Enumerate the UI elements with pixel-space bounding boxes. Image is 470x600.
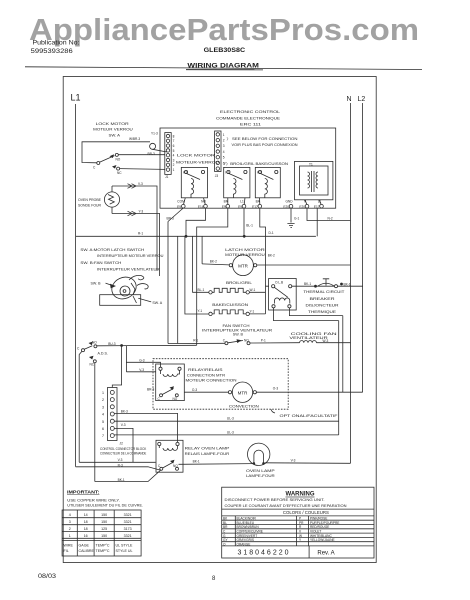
svg-text:V-3: V-3 bbox=[291, 459, 296, 463]
svg-text:E20: E20 bbox=[299, 205, 305, 209]
svg-text:VOIR PLUS BAS POUR CONNEXION: VOIR PLUS BAS POUR CONNEXION bbox=[232, 143, 298, 147]
svg-text:GLEB30S8C: GLEB30S8C bbox=[204, 48, 246, 54]
svg-text:Y-1: Y-1 bbox=[198, 309, 203, 313]
svg-text:G-1: G-1 bbox=[294, 217, 300, 221]
svg-text:3: 3 bbox=[223, 144, 225, 148]
svg-text:RELAIS LAMPE-FOUR: RELAIS LAMPE-FOUR bbox=[185, 452, 230, 456]
svg-text:3321: 3321 bbox=[124, 513, 132, 517]
svg-text:3: 3 bbox=[69, 520, 71, 524]
svg-text:7〉BROIL/GRIL BAKE/CUISSON: 7〉BROIL/GRIL BAKE/CUISSON bbox=[224, 161, 289, 166]
svg-text:2: 2 bbox=[223, 139, 225, 143]
svg-text:LAMPE-FOUR: LAMPE-FOUR bbox=[246, 474, 275, 478]
svg-text:DISCONNECT POWER BEFORE SERVIC: DISCONNECT POWER BEFORE SERVICING UNIT. bbox=[225, 498, 325, 502]
svg-text:COLORS / COULEURS: COLORS / COULEURS bbox=[283, 510, 329, 515]
svg-text:16: 16 bbox=[84, 534, 88, 538]
svg-text:STYLE UL: STYLE UL bbox=[116, 549, 133, 553]
svg-text:BK-1: BK-1 bbox=[304, 282, 311, 286]
svg-text:W/BR-3: W/BR-3 bbox=[129, 137, 140, 141]
svg-text:D-1: D-1 bbox=[269, 231, 274, 235]
svg-text:1: 1 bbox=[69, 534, 71, 538]
svg-text:MOTEUR VERROU: MOTEUR VERROU bbox=[93, 128, 133, 132]
svg-text:14: 14 bbox=[84, 513, 88, 517]
svg-text:3: 3 bbox=[173, 158, 175, 162]
svg-text:L1: L1 bbox=[240, 199, 244, 203]
svg-text:MTR: MTR bbox=[238, 390, 248, 395]
svg-text:UL-3: UL-3 bbox=[227, 416, 234, 420]
svg-text:4: 4 bbox=[223, 150, 225, 154]
svg-text:BR: BR bbox=[224, 199, 229, 203]
svg-text:N: N bbox=[347, 96, 352, 103]
svg-text:CONVECTION: CONVECTION bbox=[229, 405, 259, 409]
svg-text:6: 6 bbox=[102, 427, 104, 431]
svg-text:3: 3 bbox=[102, 405, 104, 409]
svg-text:Rev. A: Rev. A bbox=[317, 550, 334, 556]
svg-text:BL-1: BL-1 bbox=[246, 224, 253, 228]
svg-text:UTILISER SEULEMENT DU FIL DE C: UTILISER SEULEMENT DU FIL DE CUIVRE. bbox=[67, 504, 143, 508]
svg-text:CONTROL CONNECTOR BLOCK: CONTROL CONNECTOR BLOCK bbox=[100, 447, 147, 451]
svg-text:O-3: O-3 bbox=[192, 388, 198, 392]
svg-text:COM: COM bbox=[177, 199, 185, 203]
svg-text:BK-2: BK-2 bbox=[268, 253, 275, 257]
svg-text:SW. B: SW. B bbox=[233, 333, 244, 337]
svg-text:7: 7 bbox=[173, 139, 175, 143]
svg-text:4: 4 bbox=[69, 513, 71, 517]
svg-text:IMPORTANT:: IMPORTANT: bbox=[67, 490, 100, 495]
svg-text:5: 5 bbox=[173, 149, 175, 153]
svg-text:R-3: R-3 bbox=[118, 464, 123, 468]
svg-text:OVEN PROBE: OVEN PROBE bbox=[78, 198, 102, 202]
svg-text:FIL: FIL bbox=[64, 549, 69, 553]
svg-text:5: 5 bbox=[102, 420, 104, 424]
svg-text:MTR: MTR bbox=[238, 263, 248, 268]
svg-text:E20: E20 bbox=[283, 205, 289, 209]
svg-text:NO: NO bbox=[116, 158, 121, 162]
svg-text:2: 2 bbox=[173, 163, 175, 167]
svg-text:V-3: V-3 bbox=[139, 368, 144, 372]
svg-text:LOCK MOTOR: LOCK MOTOR bbox=[177, 154, 216, 158]
svg-text:J3: J3 bbox=[215, 174, 219, 178]
svg-text:GND: GND bbox=[285, 199, 293, 203]
svg-text:R-1: R-1 bbox=[193, 339, 198, 343]
svg-text:SW. B:FAN SWITCH: SW. B:FAN SWITCH bbox=[80, 261, 121, 265]
svg-text:COMMANDE ELECTRONIQUE: COMMANDE ELECTRONIQUE bbox=[216, 115, 280, 120]
svg-text:NO: NO bbox=[244, 339, 249, 343]
svg-text:1: 1 bbox=[102, 391, 104, 395]
svg-text:4: 4 bbox=[173, 154, 175, 158]
svg-text:THERMAL CIRCUIT: THERMAL CIRCUIT bbox=[303, 290, 345, 294]
svg-text:4: 4 bbox=[102, 413, 104, 417]
svg-text:V-3: V-3 bbox=[118, 458, 123, 462]
svg-text:1: 1 bbox=[223, 133, 225, 137]
svg-text:THERMIQUE: THERMIQUE bbox=[308, 310, 337, 314]
svg-text:8: 8 bbox=[173, 134, 175, 138]
svg-text:C: C bbox=[93, 166, 96, 170]
svg-text:125: 125 bbox=[101, 527, 107, 531]
svg-text:V-3: V-3 bbox=[138, 182, 143, 186]
svg-text:WIRING DIAGRAM: WIRING DIAGRAM bbox=[187, 64, 259, 70]
svg-text:NO: NO bbox=[92, 340, 97, 344]
svg-text:OVEN LAMP: OVEN LAMP bbox=[246, 469, 276, 473]
svg-text:E17: E17 bbox=[314, 205, 320, 209]
svg-text:J1: J1 bbox=[165, 175, 169, 179]
svg-text:SW. B: SW. B bbox=[91, 282, 102, 286]
svg-text:BREAKER: BREAKER bbox=[310, 297, 336, 301]
svg-text:L1: L1 bbox=[318, 199, 322, 203]
svg-text:W-3: W-3 bbox=[323, 339, 329, 343]
svg-text:WIRE: WIRE bbox=[64, 544, 74, 548]
svg-text:R-1: R-1 bbox=[138, 232, 143, 236]
svg-text:T1: T1 bbox=[309, 163, 313, 167]
svg-text:Y-1: Y-1 bbox=[250, 309, 255, 313]
svg-text:BK-1: BK-1 bbox=[344, 282, 351, 286]
svg-text:BK-3: BK-3 bbox=[121, 410, 128, 414]
svg-text:〉 SEE BELOW FOR CONNECTION: 〉 SEE BELOW FOR CONNECTION bbox=[227, 136, 298, 141]
svg-text:COUPER LE COURANT AVANT D'EFFE: COUPER LE COURANT AVANT D'EFFECTUER UNE … bbox=[225, 504, 347, 508]
svg-text:L2: L2 bbox=[358, 96, 366, 103]
svg-text:MOTEUR-VERROU: MOTEUR-VERROU bbox=[176, 161, 220, 165]
svg-text:3173: 3173 bbox=[124, 527, 132, 531]
svg-text:LOCK MOTOR: LOCK MOTOR bbox=[96, 122, 130, 126]
svg-text:BAKE/CUISSON: BAKE/CUISSON bbox=[212, 303, 248, 307]
svg-text:RELAY OVEN LAMP: RELAY OVEN LAMP bbox=[185, 447, 231, 451]
svg-text:8: 8 bbox=[212, 576, 216, 582]
svg-text:INTERRUPTEUR VENTILATEUR: INTERRUPTEUR VENTILATEUR bbox=[97, 268, 160, 272]
svg-text:AppliancePartsPros.com: AppliancePartsPros.com bbox=[29, 12, 419, 47]
svg-text:UL-3: UL-3 bbox=[227, 431, 234, 435]
svg-text:BR-3: BR-3 bbox=[148, 152, 155, 156]
svg-text:A.D.S.: A.D.S. bbox=[98, 352, 108, 356]
svg-text:18: 18 bbox=[84, 520, 88, 524]
svg-text:LATCH MOTOR: LATCH MOTOR bbox=[225, 248, 265, 252]
svg-text:OPT ONAL/FACULTATIF: OPT ONAL/FACULTATIF bbox=[280, 414, 339, 418]
svg-text:E17: E17 bbox=[252, 205, 258, 209]
svg-text:C: C bbox=[77, 347, 80, 351]
svg-text:318046220: 318046220 bbox=[237, 550, 290, 557]
svg-text:NO: NO bbox=[173, 464, 178, 468]
svg-text:NC: NC bbox=[90, 362, 95, 366]
svg-text:CONNECTEUR DE LA COMMANDE: CONNECTEUR DE LA COMMANDE bbox=[100, 452, 146, 456]
svg-text:NO: NO bbox=[173, 397, 178, 401]
svg-text:USE COPPER WIRE ONLY.: USE COPPER WIRE ONLY. bbox=[67, 499, 120, 503]
svg-text:Y-3: Y-3 bbox=[139, 210, 144, 214]
svg-text:2: 2 bbox=[102, 398, 104, 402]
svg-text:UL STYLE: UL STYLE bbox=[116, 544, 133, 548]
svg-text:WARNING: WARNING bbox=[286, 492, 315, 498]
svg-text:BK-1: BK-1 bbox=[118, 478, 125, 482]
svg-text:L1: L1 bbox=[71, 93, 81, 103]
svg-text:BK-2: BK-2 bbox=[210, 260, 217, 264]
svg-text:NO: NO bbox=[201, 199, 206, 203]
svg-text:Y1-3: Y1-3 bbox=[151, 132, 158, 136]
svg-text:V-3: V-3 bbox=[121, 423, 126, 427]
svg-text:ERC 111: ERC 111 bbox=[240, 121, 262, 126]
svg-text:BK-1: BK-1 bbox=[193, 460, 200, 464]
svg-text:3321: 3321 bbox=[124, 534, 132, 538]
svg-text:CALIBRE: CALIBRE bbox=[79, 549, 95, 553]
svg-text:GAGE: GAGE bbox=[79, 544, 90, 548]
svg-text:RELAY/RELAIS: RELAY/RELAIS bbox=[188, 368, 223, 372]
svg-text:SW. A:MOTOR LATCH SWITCH: SW. A:MOTOR LATCH SWITCH bbox=[80, 248, 144, 252]
svg-text:O.L.B: O.L.B bbox=[275, 281, 283, 285]
svg-text:E9: E9 bbox=[238, 205, 242, 209]
svg-text:5: 5 bbox=[223, 156, 225, 160]
svg-text:1: 1 bbox=[173, 168, 175, 172]
svg-text:Publication No:: Publication No: bbox=[33, 40, 80, 46]
svg-text:150: 150 bbox=[101, 534, 107, 538]
svg-text:O-3: O-3 bbox=[273, 387, 279, 391]
svg-text:SW. A: SW. A bbox=[109, 133, 121, 137]
svg-text:J2: J2 bbox=[120, 442, 124, 446]
svg-text:3321: 3321 bbox=[124, 520, 132, 524]
svg-text:TEMP°C: TEMP°C bbox=[96, 544, 110, 548]
svg-text:SW. A: SW. A bbox=[152, 301, 162, 305]
svg-text:SONDE FOUR: SONDE FOUR bbox=[78, 203, 101, 207]
svg-text:7: 7 bbox=[102, 434, 104, 438]
svg-text:150: 150 bbox=[101, 520, 107, 524]
svg-text:BL-1: BL-1 bbox=[198, 288, 205, 292]
svg-text:ELECTRONIC CONTROL: ELECTRONIC CONTROL bbox=[220, 109, 281, 114]
svg-text:CONNECTION MTR: CONNECTION MTR bbox=[187, 374, 226, 378]
svg-text:TEMP°C: TEMP°C bbox=[96, 549, 110, 553]
svg-text:BROIL/GRIL: BROIL/GRIL bbox=[226, 281, 252, 285]
svg-text:W-1: W-1 bbox=[250, 288, 256, 292]
svg-text:2: 2 bbox=[69, 527, 71, 531]
svg-text:150: 150 bbox=[101, 513, 107, 517]
svg-text:E9: E9 bbox=[222, 205, 226, 209]
svg-text:E9: E9 bbox=[177, 205, 181, 209]
svg-text:08/03: 08/03 bbox=[38, 574, 57, 580]
svg-text:DISJONCTEUR: DISJONCTEUR bbox=[306, 303, 340, 307]
svg-text:INTERRUPTEUR MOTEUR VERROU: INTERRUPTEUR MOTEUR VERROU bbox=[97, 254, 164, 258]
svg-text:6: 6 bbox=[173, 144, 175, 148]
svg-text:E14: E14 bbox=[198, 205, 204, 209]
svg-text:5995393286: 5995393286 bbox=[31, 49, 74, 55]
svg-text:G-3: G-3 bbox=[139, 358, 145, 362]
svg-text:BR-3: BR-3 bbox=[147, 387, 154, 391]
svg-text:N-2: N-2 bbox=[328, 217, 333, 221]
svg-text:18: 18 bbox=[84, 527, 88, 531]
svg-text:NC: NC bbox=[117, 171, 122, 175]
svg-text:MOTEUR CONNECTION: MOTEUR CONNECTION bbox=[186, 378, 237, 382]
svg-text:P-1: P-1 bbox=[261, 339, 266, 343]
